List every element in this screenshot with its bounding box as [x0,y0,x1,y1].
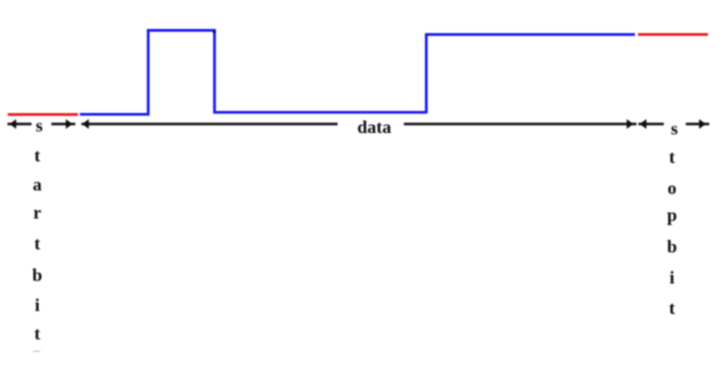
data span arrow right segment [404,123,637,126]
start bit level line (red, low) [8,113,78,116]
svg-text:s: s [671,119,678,139]
start-bit span left arrowhead [10,119,17,129]
start-bit span arrow left segment [8,123,32,126]
svg-text:b: b [32,265,42,285]
data span right arrowhead [627,119,634,129]
svg-text:t: t [669,147,675,167]
svg-text:a: a [33,175,42,195]
stop-bit span right arrowhead [699,119,706,129]
svg-text:t: t [34,146,40,166]
data span left arrowhead [82,119,89,129]
svg-text:t: t [34,234,40,254]
stop-bit span arrow right segment [686,123,709,126]
svg-text:s: s [36,116,43,136]
stop bit level line (red, high) [638,33,708,36]
data span arrow left segment [81,123,337,126]
svg-text:t: t [669,298,675,318]
stop-bit span arrow left segment [639,123,664,126]
svg-text:o: o [668,178,677,198]
svg-text:t: t [34,324,40,344]
start-bit span right arrowhead [66,119,73,129]
svg-text:p: p [667,205,677,225]
stop-bit span left arrowhead [640,119,647,129]
svg-text:data: data [357,117,391,137]
svg-text:i: i [35,295,40,315]
data waveform (blue): low, pulse high, low, rise to high [80,30,635,114]
faint cropped mark below left column [33,351,40,352]
svg-text:r: r [33,203,41,223]
svg-text:b: b [667,237,677,257]
start-bit span arrow right segment [51,123,75,126]
svg-text:i: i [669,268,674,288]
dark corner artifact at pulse falling edge [213,30,216,33]
